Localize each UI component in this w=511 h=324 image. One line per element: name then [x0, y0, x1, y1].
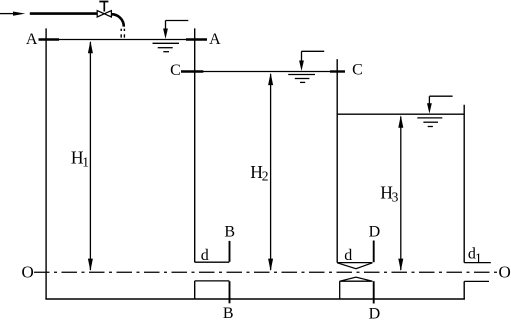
tube B top wall: [195, 261, 230, 263]
section tick D upper: [373, 241, 375, 263]
svg-text:C: C: [352, 62, 363, 79]
dimension H1: [88, 41, 93, 271]
valve stem: [103, 2, 105, 12]
svg-text:1: 1: [82, 154, 89, 169]
svg-text:C: C: [170, 62, 181, 79]
tank 3 water surface line: [337, 113, 464, 115]
section tick D lower: [373, 281, 375, 303]
svg-text:O: O: [499, 263, 511, 282]
tank 3 right wall: [463, 105, 465, 263]
dimension H3: [398, 115, 403, 271]
section line A-A: [39, 39, 208, 41]
centerline O-O: [34, 271, 497, 273]
tank 3 right wall lower stub: [463, 281, 465, 299]
pipe outlet bend: [111, 14, 123, 26]
svg-text:d: d: [201, 247, 209, 264]
section line C-C: [181, 71, 345, 73]
tanks bottom line: [45, 298, 465, 300]
valve body: [97, 11, 111, 17]
outlet pipe bottom wall: [464, 280, 489, 282]
svg-text:B: B: [223, 305, 234, 319]
svg-text:1: 1: [475, 252, 482, 267]
nozzle upper outer wall: [337, 262, 372, 264]
valve handle: [99, 1, 108, 3]
svg-text:B: B: [224, 224, 235, 241]
water level symbol tank 3: [417, 96, 452, 126]
dimension H2: [268, 73, 273, 271]
svg-text:A: A: [209, 31, 221, 48]
svg-text:D: D: [369, 306, 381, 320]
svg-text:O: O: [21, 263, 33, 282]
falling jet dashes: [121, 29, 124, 38]
nozzle lower outer wall: [340, 280, 373, 282]
svg-text:2: 2: [262, 169, 269, 184]
section tick B upper: [229, 241, 231, 262]
nozzle lower inner cone: [340, 277, 373, 281]
tank 1 / tank 2 shared wall: [194, 28, 196, 262]
outlet pipe top wall: [464, 262, 491, 264]
tank 2/3 wall lower stub: [339, 281, 341, 299]
tank 1 left wall: [45, 28, 47, 299]
water level symbol tank 1: [153, 21, 189, 52]
shared wall lower stub: [194, 281, 196, 300]
svg-text:A: A: [26, 31, 38, 48]
section tick B lower: [229, 281, 231, 303]
svg-text:d: d: [344, 247, 352, 264]
supply pipe: [30, 12, 97, 15]
svg-text:D: D: [369, 224, 381, 241]
tank 2 / tank 3 shared wall: [336, 59, 338, 263]
water level symbol tank 2: [288, 51, 324, 82]
inlet flow arrow: [0, 12, 25, 16]
tube B bottom wall: [195, 280, 230, 282]
nozzle upper inner cone: [337, 263, 372, 269]
svg-text:3: 3: [392, 190, 399, 205]
